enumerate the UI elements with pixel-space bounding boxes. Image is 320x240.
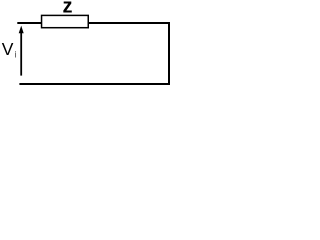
wire bottom segment: [19, 83, 170, 85]
svg-text:z: z: [63, 0, 73, 18]
svg-text:i: i: [15, 50, 17, 60]
voltage arrow V: [19, 26, 24, 76]
impedance box Z: [42, 15, 89, 27]
svg-text:V: V: [2, 39, 14, 59]
wire top-left segment: [17, 22, 41, 24]
wire top-right segment: [88, 22, 170, 24]
wire right segment: [168, 22, 170, 85]
